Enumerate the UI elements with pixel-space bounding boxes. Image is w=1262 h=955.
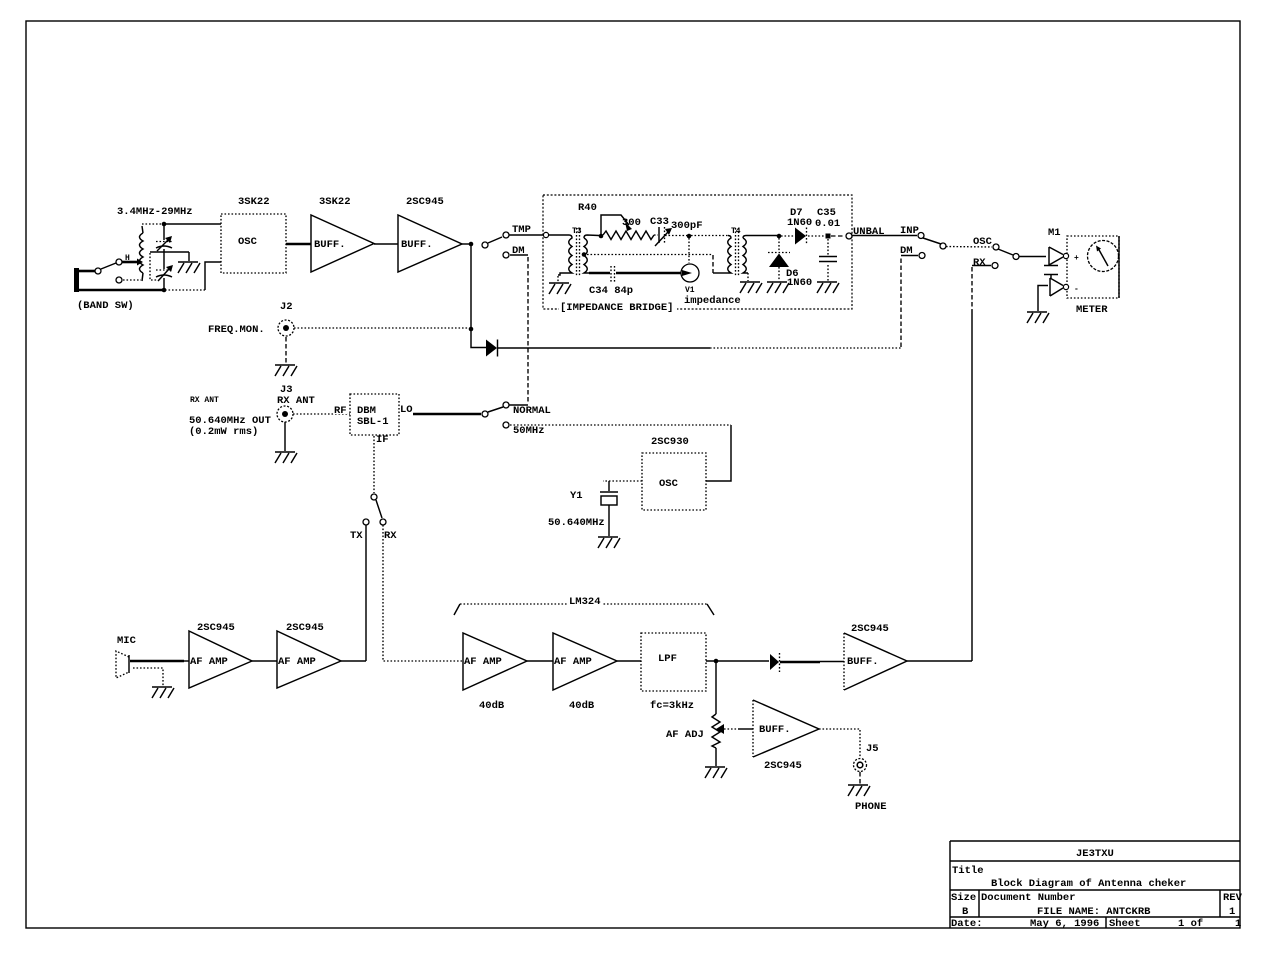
svg-text:AF AMP: AF AMP — [554, 656, 592, 668]
wire node down to diode — [471, 331, 486, 348]
wire R40 to C33 — [654, 234, 658, 236]
label Document Number — [981, 892, 1076, 904]
wire T4 to ground — [747, 273, 749, 281]
switch SW6 throw OSC — [993, 244, 999, 250]
label RX ANT (at J3) — [277, 395, 315, 407]
switch SW4 blade — [376, 500, 382, 518]
svg-text:0.01: 0.01 — [815, 218, 840, 230]
junction LPF out — [714, 659, 719, 664]
label UNBAL — [853, 226, 885, 238]
svg-text:IF: IF — [376, 434, 389, 446]
wire OSC to BUFF1 — [286, 243, 311, 246]
svg-text:1: 1 — [1229, 906, 1235, 918]
label 300 — [622, 217, 641, 229]
svg-text:1 of: 1 of — [1178, 918, 1203, 930]
label RX ANT — [190, 396, 219, 405]
label D7 — [790, 207, 803, 219]
svg-text:Y1: Y1 — [570, 490, 583, 502]
switch SW2 throw TMP — [503, 232, 509, 238]
label 1 of — [1178, 918, 1203, 930]
svg-text:R40: R40 — [578, 202, 597, 214]
label FREQ.MON. — [208, 324, 265, 336]
junction R40 node — [599, 234, 604, 239]
T3 center tap junction — [582, 252, 587, 257]
label AF ADJ — [666, 729, 704, 741]
svg-text:B: B — [962, 906, 969, 918]
transformer T3 — [558, 228, 599, 277]
connector J5 — [854, 759, 867, 772]
wire J5 to ground — [859, 772, 861, 784]
ground tank — [178, 252, 200, 273]
wire L throw dotted — [123, 279, 141, 281]
label V1 — [685, 286, 695, 295]
ground AF ADJ — [705, 767, 727, 778]
switch SW4 throw TX — [363, 519, 369, 525]
wire junction down to J2 node — [470, 246, 472, 328]
svg-text:AF AMP: AF AMP — [464, 656, 502, 668]
label J5 — [866, 743, 879, 755]
af amplifier U1B — [553, 633, 617, 690]
buffer amp BUFF5 — [844, 633, 907, 690]
switch SW4 TX/RX common — [371, 494, 377, 500]
label Size — [951, 892, 976, 904]
svg-text:M1: M1 — [1048, 227, 1061, 239]
svg-text:fc=3kHz: fc=3kHz — [650, 700, 694, 712]
switch SW6 throw RX — [992, 263, 998, 269]
wire diode to DM2 net — [498, 257, 901, 348]
svg-text:OSC: OSC — [973, 236, 993, 248]
wire SW5 to SW6 — [946, 246, 992, 249]
label 300pF — [671, 220, 703, 232]
label REV — [1223, 892, 1243, 904]
af amplifier U1A — [463, 633, 527, 690]
switch SW3 throw 50MHz — [503, 422, 509, 428]
wire RX throw to buffer out — [972, 266, 991, 662]
wire UNBAL to INP — [852, 235, 917, 237]
svg-text:50MHz: 50MHz — [513, 425, 545, 437]
svg-text:TX: TX — [350, 530, 363, 542]
svg-text:C34 84p: C34 84p — [589, 285, 633, 297]
wire SW6 to meter — [1019, 256, 1046, 258]
wire BUFF6 to J5 — [819, 729, 860, 757]
label T4 — [731, 227, 741, 236]
svg-text:1N60: 1N60 — [787, 277, 812, 289]
svg-text:BUFF.: BUFF. — [401, 239, 433, 251]
svg-text:2SC930: 2SC930 — [651, 436, 689, 448]
buffer amp BUFF6 — [753, 700, 819, 757]
wire VC1 to VC2 — [163, 249, 165, 269]
wire amp1 to amp2 — [252, 660, 277, 662]
svg-text:2SC945: 2SC945 — [851, 623, 889, 635]
wire wiper to BUFF6 — [724, 728, 753, 730]
wire U1B to LPF — [617, 660, 641, 662]
label 3SK22 (osc) — [238, 196, 270, 208]
wire DM to normal throw — [510, 255, 528, 403]
label LM324 — [568, 596, 602, 608]
wire coil top to node — [142, 224, 162, 233]
wire U1A to U1B — [527, 660, 553, 662]
svg-text:NORMAL: NORMAL — [513, 405, 551, 417]
svg-text:3.4MHz-29MHz: 3.4MHz-29MHz — [117, 206, 193, 218]
label impedance — [684, 295, 741, 307]
potentiometer AF ADJ — [712, 714, 724, 748]
wire C35 node to UNBAL — [831, 235, 845, 237]
ground T3 — [549, 283, 571, 294]
potentiometer R40 — [601, 215, 654, 240]
meter plus pin — [1049, 247, 1079, 265]
switch throw H contact — [116, 259, 122, 265]
wire J3 to DBM RF — [293, 413, 350, 415]
wire 50MHz to marker osc — [510, 424, 731, 426]
wire node to T4 — [691, 235, 728, 237]
switch SW2 blade — [488, 237, 502, 243]
switch SW2 common — [482, 242, 488, 248]
variable capacitor VC1 — [156, 236, 172, 251]
wire minus to ground — [1038, 286, 1048, 312]
label RX (meter switch) — [973, 257, 986, 269]
label sheet 1 — [1235, 918, 1241, 930]
wire J3 to ground — [284, 422, 286, 451]
label RF pin — [333, 405, 347, 417]
wire H throw to coil tap — [122, 259, 143, 266]
svg-text:[IMPEDANCE BRIDGE]: [IMPEDANCE BRIDGE] — [560, 302, 673, 314]
switch SW5 blade — [923, 238, 941, 244]
svg-text:3SK22: 3SK22 — [319, 196, 351, 208]
label JE3TXU — [1076, 848, 1114, 860]
label NORMAL — [513, 405, 551, 417]
wire pot to ground — [715, 748, 717, 766]
switch SW5 throw DM — [919, 253, 925, 259]
trimmer capacitor C33 — [655, 227, 672, 246]
ground D6 — [767, 282, 789, 293]
switch SW2 throw DM — [503, 252, 509, 258]
wire MIC to ground — [133, 668, 163, 686]
label 3.4MHz-29MHz — [117, 206, 193, 218]
wire coil bottom — [142, 273, 143, 281]
label TMP — [512, 224, 531, 236]
crystal Y1 — [600, 492, 618, 505]
svg-text:(0.2mW rms): (0.2mW rms) — [189, 426, 258, 438]
svg-text:1: 1 — [1235, 918, 1241, 930]
wire port to T3 — [549, 234, 569, 236]
ground C35 — [817, 282, 839, 293]
wire amp2 to TX node — [341, 660, 366, 662]
switch SW6 blade — [998, 249, 1013, 255]
svg-text:AF AMP: AF AMP — [190, 656, 228, 668]
buffer amp BUFF1 — [311, 215, 374, 272]
diode D6 1N60 — [768, 253, 790, 268]
switch SW3 blade — [488, 407, 503, 412]
svg-text:FILE NAME: ANTCKRB: FILE NAME: ANTCKRB — [1037, 906, 1151, 918]
svg-text:Size: Size — [951, 892, 976, 904]
switch throw L contact — [116, 277, 122, 283]
label C33 — [650, 216, 669, 228]
svg-text:-: - — [1074, 285, 1079, 294]
wire TMP to bridge — [509, 234, 543, 236]
LM324 bracket — [454, 604, 714, 615]
svg-text:+: + — [1074, 254, 1079, 263]
svg-text:TMP: TMP — [512, 224, 531, 236]
junction below BUFF2 — [469, 242, 474, 247]
svg-text:LM324: LM324 — [569, 596, 601, 608]
connector J3 — [277, 406, 293, 422]
wire J2 to ground — [285, 337, 287, 364]
label 2SC945 (buff5) — [851, 623, 889, 635]
svg-text:300: 300 — [622, 217, 641, 229]
label 50.640MHz OUT — [189, 415, 271, 427]
wire osc in to crystal — [603, 481, 642, 491]
svg-text:LPF: LPF — [658, 653, 677, 665]
label 40dB (U1A) — [479, 700, 505, 712]
mid tap dotted branch — [150, 253, 157, 280]
capacitor C34 — [611, 266, 615, 283]
bottom node junction — [162, 288, 167, 293]
label METER — [1076, 304, 1108, 316]
wire BUFF2 to junction — [462, 243, 469, 245]
svg-text:Document Number: Document Number — [981, 892, 1076, 904]
ground J2 — [275, 365, 297, 376]
svg-text:BUFF.: BUFF. — [759, 724, 791, 736]
wire BUFF1 to BUFF2 — [374, 243, 398, 245]
svg-text:2SC945: 2SC945 — [197, 622, 235, 634]
wire C34 to V1 — [616, 272, 681, 275]
svg-text:BUFF.: BUFF. — [847, 656, 879, 668]
svg-text:RF: RF — [334, 405, 347, 417]
af amplifier Q2 — [277, 631, 341, 688]
wire IF down — [373, 436, 375, 493]
wire osc out to 50MHz throw — [706, 425, 731, 481]
wire junction down to pot — [715, 663, 717, 714]
svg-text:AF ADJ: AF ADJ — [666, 729, 704, 741]
ground Y1 — [598, 537, 620, 548]
switch SW3 throw NORMAL — [503, 402, 509, 408]
svg-text:PHONE: PHONE — [855, 801, 887, 813]
switch SW5 throw INP — [918, 233, 924, 239]
wire node A to OSC box — [165, 223, 221, 225]
band switch SW1 pole bar — [74, 268, 79, 292]
svg-text:C33: C33 — [650, 216, 669, 228]
meter minus pin — [1050, 278, 1079, 296]
svg-text:3SK22: 3SK22 — [238, 196, 270, 208]
svg-text:INP: INP — [900, 225, 919, 237]
label PHONE — [855, 801, 887, 813]
svg-text:RX ANT: RX ANT — [277, 395, 315, 407]
svg-text:RX ANT: RX ANT — [190, 396, 219, 405]
label 1N60 (D7) — [787, 217, 812, 229]
bottom rail wire — [76, 262, 221, 290]
label INP — [900, 225, 919, 237]
svg-text:50.640MHz: 50.640MHz — [548, 517, 605, 529]
svg-text:impedance: impedance — [684, 295, 741, 307]
variable capacitor VC2 — [156, 265, 173, 281]
wire node down to D6 — [778, 238, 780, 251]
label TX — [350, 530, 363, 542]
inductor L1 — [140, 233, 144, 273]
svg-text:REV: REV — [1223, 892, 1243, 904]
wire D8 to BUFF — [780, 660, 844, 663]
svg-text:MIC: MIC — [117, 635, 137, 647]
svg-text:300pF: 300pF — [671, 220, 703, 232]
label J2 — [280, 301, 293, 313]
svg-text:JE3TXU: JE3TXU — [1076, 848, 1114, 860]
label 50MHz — [513, 425, 545, 437]
ground MIC — [152, 687, 174, 698]
svg-text:V1: V1 — [685, 286, 695, 295]
label FILE NAME: ANTCKRB — [1037, 906, 1151, 918]
ground T4 — [740, 282, 762, 293]
ground meter — [1027, 312, 1049, 323]
svg-text:2SC945: 2SC945 — [286, 622, 324, 634]
svg-text:Title: Title — [952, 865, 984, 877]
label 1N60 (D6) — [787, 277, 812, 289]
label H — [125, 254, 130, 263]
wire NORMAL throw — [509, 404, 528, 406]
wire center tap rail — [587, 255, 728, 274]
label 3SK22 (buff1) — [319, 196, 351, 208]
meter M1 box — [1067, 236, 1119, 298]
label R40 — [578, 202, 597, 214]
wire D7 to C35 node — [808, 235, 824, 237]
label OSC (meter switch) — [973, 236, 993, 248]
buffer amp BUFF2 — [398, 215, 462, 272]
svg-text:OSC: OSC — [238, 236, 258, 248]
label B — [962, 906, 969, 918]
label Sheet — [1109, 918, 1141, 930]
wire BUFF5 to RX riser — [907, 660, 972, 662]
diode D7 1N60 — [795, 228, 807, 246]
transformer T4 — [728, 228, 777, 277]
wire node to D7 — [781, 235, 794, 237]
label REV 1 — [1229, 906, 1235, 918]
label DM — [512, 245, 525, 257]
label 0.01 — [815, 218, 840, 230]
switch SW3 common — [482, 411, 488, 417]
label C34 84p — [589, 285, 633, 297]
junction detector node — [777, 234, 782, 239]
svg-text:METER: METER — [1076, 304, 1108, 316]
label 2SC930 — [651, 436, 689, 448]
label C35 — [817, 207, 836, 219]
svg-text:2SC945: 2SC945 — [406, 196, 444, 208]
svg-text:OSC: OSC — [659, 478, 679, 490]
label 2SC945 (af amp2) — [286, 622, 324, 634]
af amplifier Q1 — [189, 631, 252, 688]
label [IMPEDANCE BRIDGE] — [559, 301, 677, 314]
ground J3 — [275, 452, 297, 463]
junction bridge node — [687, 234, 692, 239]
label Title — [952, 865, 984, 877]
wire LO to switch — [413, 413, 481, 416]
svg-text:LO: LO — [400, 404, 413, 416]
label Y1 — [570, 490, 583, 502]
bridge input port — [543, 232, 548, 237]
wire T3 bottom to ground — [557, 276, 559, 282]
svg-text:Sheet: Sheet — [1109, 918, 1141, 930]
switch common contact — [95, 268, 101, 274]
label fc=3kHz — [650, 700, 694, 712]
potentiometer V1 impedance — [681, 264, 699, 282]
mid tap wire — [150, 251, 189, 253]
wire RX down to AF amp in — [383, 525, 462, 661]
label 40dB (U1B) — [569, 700, 595, 712]
label 2SC945 (af amp1) — [197, 622, 235, 634]
UNBAL port — [846, 233, 852, 239]
label (BAND SW) — [77, 300, 134, 312]
switch SW6 common — [1013, 254, 1019, 260]
low pass filter LPF — [641, 633, 706, 691]
svg-text:FREQ.MON.: FREQ.MON. — [208, 324, 265, 336]
wire J2 to node — [294, 327, 468, 329]
svg-text:40dB: 40dB — [479, 700, 505, 712]
mixer DBM SBL-1 — [350, 394, 399, 435]
wire C33 to bridge node — [665, 235, 687, 237]
wire D6 to ground — [778, 267, 780, 281]
wire MIC to AF amp — [130, 660, 189, 663]
svg-text:Block Diagram of Antenna cheke: Block Diagram of Antenna cheker — [991, 878, 1186, 890]
wire node down to V1 wiper — [688, 238, 690, 263]
label DM (meter) — [900, 245, 913, 257]
label D6 — [786, 268, 799, 280]
capacitor C35 — [819, 239, 837, 281]
label 2SC945 (buff6) — [764, 760, 802, 772]
impedance bridge enclosure — [543, 195, 852, 309]
svg-text:(BAND SW): (BAND SW) — [77, 300, 134, 312]
connector J2 — [278, 320, 294, 336]
microphone MIC — [116, 651, 129, 678]
pin base plates — [1044, 266, 1058, 279]
label (0.2mW rms) — [189, 426, 258, 438]
marker oscillator block OSC 2SC930 — [642, 453, 706, 510]
label Block Diagram of Antenna cheker — [991, 878, 1186, 890]
label T3 — [572, 227, 582, 236]
label LO pin — [400, 404, 413, 416]
label 2SC945 (buff2) — [406, 196, 444, 208]
svg-text:1N60: 1N60 — [787, 217, 812, 229]
junction J2 node — [469, 327, 474, 332]
wire VC2 to bottom node — [163, 278, 165, 289]
title block frame — [950, 841, 1240, 928]
diode D5 sampling — [486, 340, 498, 357]
wire TX down to mic amp out — [365, 525, 367, 661]
junction C35 node — [826, 234, 831, 239]
ground J5 — [848, 785, 870, 796]
wire node A down to VC1 — [163, 226, 165, 240]
wire DM throw left — [901, 255, 918, 257]
label J3 — [280, 384, 293, 396]
svg-text:2SC945: 2SC945 — [764, 760, 802, 772]
oscillator block OSC 3SK22 — [221, 214, 286, 273]
svg-text:40dB: 40dB — [569, 700, 595, 712]
switch SW5 common — [940, 243, 946, 249]
label IF pin — [376, 434, 389, 446]
label MIC — [117, 635, 137, 647]
svg-text:BUFF.: BUFF. — [314, 239, 346, 251]
label RX — [384, 530, 397, 542]
switch SW4 throw RX — [380, 519, 386, 525]
wire T3 bottom rail — [589, 272, 610, 275]
switch blade — [101, 263, 116, 269]
label M1 — [1048, 227, 1061, 239]
wire LPF to junction — [706, 660, 769, 662]
label May 6 1996 — [1030, 918, 1099, 930]
svg-text:J5: J5 — [866, 743, 879, 755]
svg-text:AF AMP: AF AMP — [278, 656, 316, 668]
svg-text:J2: J2 — [280, 301, 293, 313]
node A junction — [162, 222, 167, 227]
diode D8 — [770, 653, 780, 672]
label 50.640MHz — [548, 517, 605, 529]
svg-text:SBL-1: SBL-1 — [357, 416, 389, 428]
